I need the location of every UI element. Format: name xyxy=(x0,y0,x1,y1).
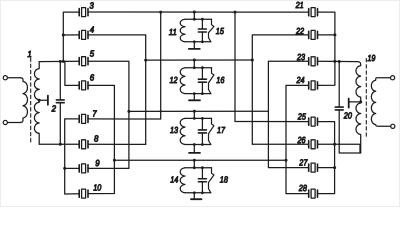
node bus235 top junction xyxy=(234,11,237,14)
svg-text:18: 18 xyxy=(220,175,228,185)
wire tank 14 ground stem xyxy=(193,193,195,199)
svg-text:21: 21 xyxy=(295,0,304,10)
wire tank 12 row xyxy=(146,59,253,61)
crystal 28 xyxy=(309,189,318,198)
svg-text:5: 5 xyxy=(90,49,94,59)
svg-text:25: 25 xyxy=(297,111,306,121)
trimmer capacitor 15 xyxy=(209,19,214,42)
ground centre tap chassis bar right xyxy=(348,99,350,108)
node tank 11 bottom-left junction xyxy=(193,40,196,43)
svg-text:26: 26 xyxy=(297,135,306,145)
wire node A horizontal xyxy=(39,60,79,62)
svg-text:1: 1 xyxy=(27,49,31,59)
ground tank 11 xyxy=(189,48,200,50)
inductor L11 xyxy=(180,19,185,42)
wire tank 13 ground stem xyxy=(193,145,195,153)
capacitor C2 plates xyxy=(56,100,64,103)
capacitor C12 top stub xyxy=(201,68,203,79)
node T19 centre tap xyxy=(359,100,362,103)
node capacitor 20 top junction xyxy=(338,60,341,63)
terminal input bottom xyxy=(3,120,7,124)
svg-text:11: 11 xyxy=(169,27,177,37)
svg-text:14: 14 xyxy=(170,175,178,185)
capacitor C13 bottom stub xyxy=(201,133,203,145)
ground centre tap chassis bar xyxy=(47,96,49,105)
node tank 13 bottom-left junction xyxy=(193,143,196,146)
wire capacitor 2 upper rail xyxy=(59,62,61,100)
svg-text:12: 12 xyxy=(170,75,178,85)
transformer T1 core xyxy=(30,58,32,142)
node tank 11 bottom-right junction xyxy=(201,40,204,43)
node tank 12 top-left junction xyxy=(193,66,196,69)
transformer T19 secondary winding xyxy=(371,78,390,127)
wire tank 11 ground stem xyxy=(193,42,195,49)
node bus129 tank13 junction xyxy=(127,110,130,113)
wire rail to crystals 25 27 28 xyxy=(318,122,335,194)
crystal 4 xyxy=(79,30,88,39)
node railC-27 junction xyxy=(333,166,336,169)
transformer T1 secondary winding xyxy=(34,62,39,145)
wire crystal 26 row right xyxy=(318,144,361,153)
transformer T19 primary winding xyxy=(356,62,361,153)
transformer T1 primary winding xyxy=(21,78,28,123)
node rail-4 junction xyxy=(62,34,65,37)
crystal 3 xyxy=(79,8,88,17)
capacitor C13 top stub xyxy=(201,118,203,130)
terminal input top xyxy=(3,76,7,80)
ground tank 14 xyxy=(191,198,202,200)
node tank14 row right junction xyxy=(285,159,288,162)
wire bus crystal5-tank13 xyxy=(88,61,129,168)
wire capacitor 20 upper rail xyxy=(338,62,340,108)
node bus145 tank12 junction xyxy=(144,59,147,62)
capacitor C11 bottom stub xyxy=(201,32,203,42)
wire capacitor 2 lower rail xyxy=(59,103,61,145)
inductor L13 xyxy=(180,118,185,144)
node rail node A junction xyxy=(62,60,65,63)
node railC-26 junction xyxy=(333,143,336,146)
wire crystal 27 right lead xyxy=(318,167,335,169)
node tank 12 row junction xyxy=(193,59,196,62)
svg-text:9: 9 xyxy=(95,158,99,168)
wire crystal 26 row left xyxy=(252,143,308,145)
capacitor C14 top stub xyxy=(201,168,203,179)
wire bus crystal6-tank14 xyxy=(88,85,114,193)
wire capacitor 20 lower rail xyxy=(339,110,361,153)
wire tank 12 ground stem xyxy=(193,94,195,101)
node capacitor 2 top junction xyxy=(59,60,62,63)
node tank 14 bottom-right junction xyxy=(201,191,204,194)
ground tank 13 xyxy=(189,152,200,154)
wire crystal 7 row xyxy=(88,118,161,120)
wire input top lead xyxy=(7,77,20,79)
node tank 13 row junction xyxy=(193,110,196,113)
node tank 13 top-left junction xyxy=(193,117,196,120)
svg-text:27: 27 xyxy=(298,157,308,167)
svg-text:10: 10 xyxy=(93,183,101,193)
wire tank 13 row xyxy=(129,110,269,112)
wire node C horizontal xyxy=(318,60,358,62)
crystal 27 xyxy=(309,163,318,172)
node tank 14 top-left junction xyxy=(193,166,196,169)
node T1 secondary centre tap xyxy=(38,99,41,102)
trimmer capacitor 16 xyxy=(209,68,214,94)
svg-text:6: 6 xyxy=(90,73,94,83)
crystal 9 xyxy=(79,164,88,173)
svg-text:8: 8 xyxy=(94,133,98,143)
node tank 11 row junction xyxy=(193,11,196,14)
transformer T19 core xyxy=(365,59,367,140)
svg-text:2: 2 xyxy=(51,104,56,114)
wire bus crystal23-tank13-crystal27 xyxy=(268,61,308,167)
wire input bottom lead xyxy=(7,122,20,124)
node bus252 tank12 junction xyxy=(251,59,254,62)
svg-text:23: 23 xyxy=(296,52,305,62)
svg-text:7: 7 xyxy=(92,109,97,119)
capacitor C12 plates xyxy=(198,79,206,82)
node tank13-bus161 junction xyxy=(160,110,162,112)
wire tank 12 bottom rail xyxy=(185,93,211,95)
trimmer capacitor 17 xyxy=(209,118,214,144)
terminal output top xyxy=(391,76,395,80)
crystal 25 xyxy=(309,117,318,126)
svg-text:20: 20 xyxy=(343,110,352,120)
crystal 24 xyxy=(309,81,318,90)
wire tank 14 bottom rail xyxy=(185,192,211,194)
wire crystal 4 left lead xyxy=(63,34,79,36)
wire crystal 9 row right xyxy=(88,167,129,169)
wire tank 14 top rail xyxy=(185,167,212,169)
wire dropper to crystal 6 xyxy=(65,62,79,86)
wire crystal 8 row xyxy=(88,143,146,145)
wire crystal 22 right lead xyxy=(318,34,335,36)
node tank 12 bottom-left junction xyxy=(193,92,196,95)
node rail-9 junction xyxy=(63,167,66,170)
wire tank 13 drop xyxy=(193,111,195,118)
trimmer capacitor 18 xyxy=(209,168,214,193)
svg-text:3: 3 xyxy=(89,1,93,11)
crystal 7 xyxy=(79,114,88,123)
svg-text:28: 28 xyxy=(298,183,307,193)
node tank 12 bottom-right junction xyxy=(201,92,204,95)
svg-text:19: 19 xyxy=(367,53,375,63)
wire tank 12 drop xyxy=(193,60,195,68)
wire tank 12 top rail xyxy=(185,67,212,69)
node bus114 tank14 junction xyxy=(113,159,116,162)
wire tank 13 top rail xyxy=(185,117,212,119)
wire bus crystal24-tank14-crystal28 xyxy=(286,85,309,193)
terminal output bottom xyxy=(391,124,395,128)
svg-text:16: 16 xyxy=(216,75,224,85)
capacitor C20 plates xyxy=(335,107,343,110)
capacitor C11 plates xyxy=(198,29,206,32)
wire bus tank11-crystal25 xyxy=(235,12,309,122)
wire rail to crystals 3 and 4 xyxy=(63,12,79,61)
svg-text:13: 13 xyxy=(170,125,178,135)
inductor L14 xyxy=(180,168,185,193)
node tank 11 top-left junction xyxy=(193,18,196,21)
crystal 22 xyxy=(309,30,318,39)
node tank 14 top-right junction xyxy=(201,166,204,169)
capacitor C12 bottom stub xyxy=(201,82,203,93)
node tank 13 top-right junction xyxy=(201,117,204,120)
node tank 13 bottom-right junction xyxy=(201,143,204,146)
svg-text:24: 24 xyxy=(296,75,305,85)
node tank 14 bottom-left junction xyxy=(193,191,196,194)
node rail node C junction xyxy=(333,60,336,63)
wire centre tap stub xyxy=(39,99,47,101)
wire centre tap stub right xyxy=(349,101,360,103)
node tank 14 row junction xyxy=(193,159,196,162)
wire bus crystal22-tank12-crystal26 xyxy=(252,35,308,144)
wire crystal 9 left lead xyxy=(65,167,80,169)
wire node B horizontal xyxy=(39,143,79,145)
wire tank 11 drop xyxy=(193,12,195,19)
crystal 6 xyxy=(79,81,88,90)
capacitor C14 plates xyxy=(198,179,206,182)
svg-text:17: 17 xyxy=(217,125,226,135)
crystal 26 xyxy=(309,140,318,149)
crystal 5 xyxy=(79,57,88,66)
wire tank 13 bottom rail xyxy=(185,144,211,146)
svg-text:4: 4 xyxy=(90,24,94,34)
capacitor C14 bottom stub xyxy=(201,182,203,193)
node capacitor 2 bottom junction xyxy=(59,143,62,146)
wire tank 11 top rail xyxy=(185,18,212,20)
crystal 21 xyxy=(309,8,318,17)
wire bus crystal4-tank12 xyxy=(88,35,146,144)
svg-text:15: 15 xyxy=(216,26,224,36)
node rail-22 junction xyxy=(333,33,336,36)
node bus161 top junction xyxy=(159,11,162,14)
node tank 11 top-right junction xyxy=(201,18,204,21)
wire rail to crystals 7 9 10 xyxy=(65,119,80,194)
wire rail to crystals 21 24 xyxy=(318,12,335,85)
capacitor C13 plates xyxy=(198,130,206,133)
wire bus crystal7-tank11 xyxy=(160,12,162,119)
crystal 23 xyxy=(309,57,318,66)
capacitor C11 top stub xyxy=(201,19,203,29)
svg-text:22: 22 xyxy=(295,26,304,36)
inductor L12 xyxy=(180,68,185,94)
wire tank 11 bottom rail xyxy=(185,41,211,43)
crystal 8 xyxy=(79,140,88,149)
wire tank 11 row xyxy=(88,11,309,13)
node tank 12 top-right junction xyxy=(201,66,204,69)
crystal 10 xyxy=(79,189,88,198)
ground tank 12 xyxy=(189,99,200,101)
wire tank 14 drop xyxy=(193,160,195,168)
wire tank 14 row xyxy=(114,159,286,161)
